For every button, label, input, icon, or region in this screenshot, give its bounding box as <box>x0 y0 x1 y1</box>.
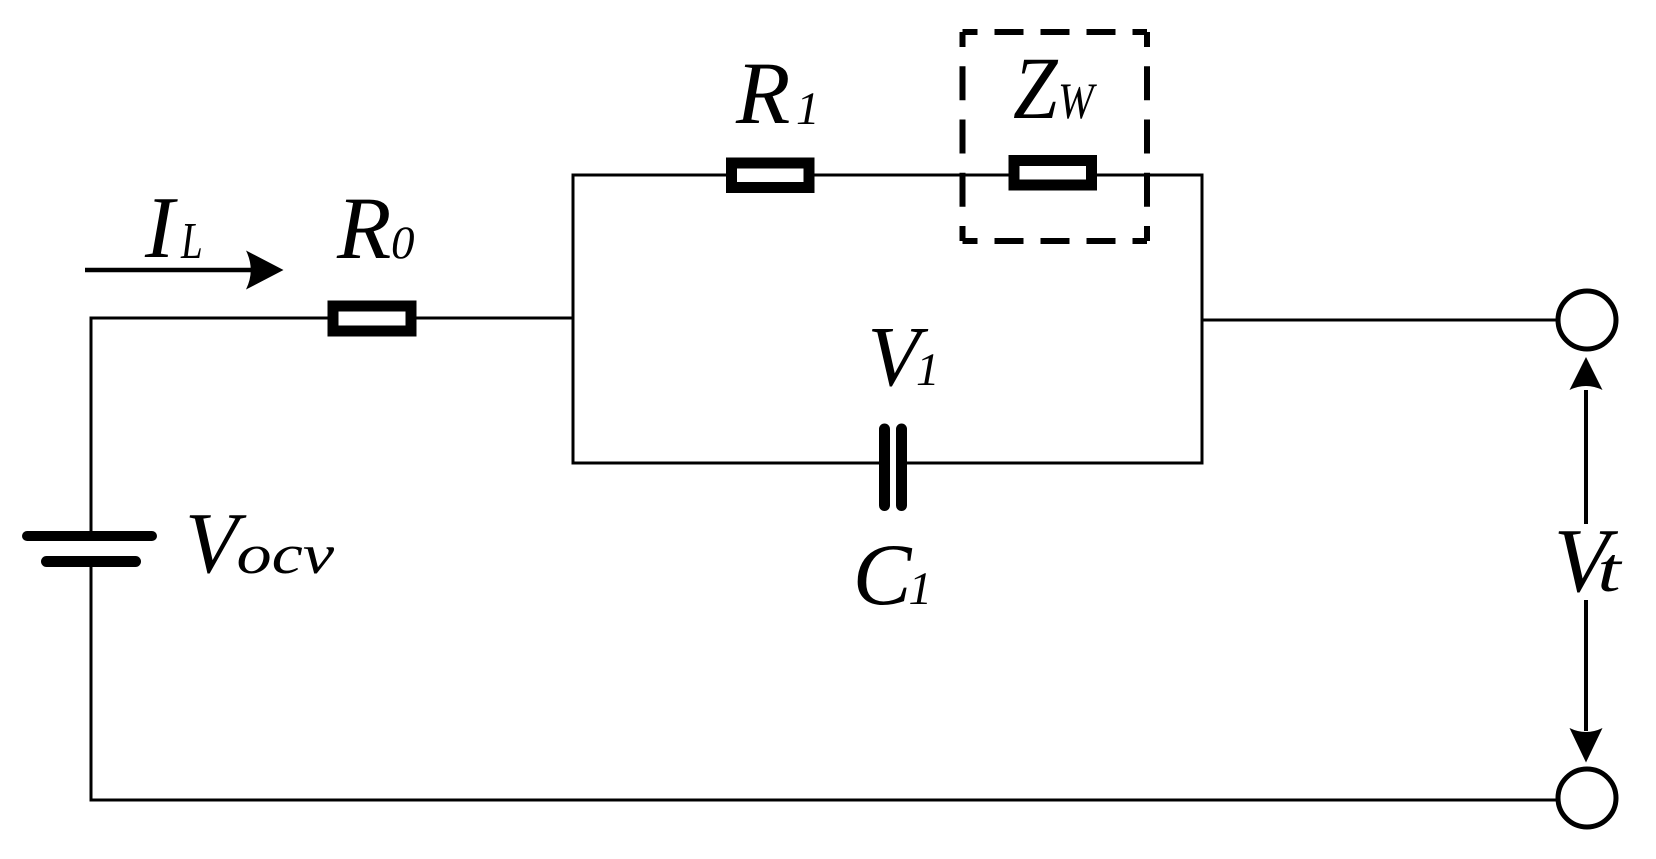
Vt arrow lower (pointing down at bottom terminal) <box>1584 600 1588 731</box>
battery Vocv short plate <box>47 556 136 567</box>
svg-text:Z: Z <box>1013 40 1058 138</box>
capacitor C1 right plate <box>896 429 907 506</box>
Vt arrow upper (pointing up at top terminal) <box>1584 390 1588 524</box>
dashed box around Zw <box>963 29 1148 35</box>
wire top-left horizontal from battery corner to RC block <box>91 317 573 320</box>
wire bottom branch right of capacitor <box>907 462 1204 465</box>
svg-text:C: C <box>853 527 913 624</box>
wire bottom rail <box>90 799 1560 802</box>
resistor R1 <box>732 163 810 188</box>
svg-text:L: L <box>180 212 203 270</box>
wire right vertical of RC block <box>1201 174 1204 465</box>
svg-text:I: I <box>144 180 178 277</box>
svg-text:t: t <box>1597 536 1623 606</box>
wire left vertical upper (corner to battery top plate) <box>90 317 93 532</box>
svg-text:R: R <box>336 180 391 278</box>
svg-text:W: W <box>1058 74 1097 130</box>
wire left vertical of RC block <box>572 174 575 464</box>
svg-text:1: 1 <box>909 563 933 615</box>
terminal top circle <box>1558 291 1616 349</box>
svg-text:R: R <box>735 45 790 143</box>
resistor R0 <box>333 306 411 331</box>
svg-text:0: 0 <box>391 217 415 269</box>
wire output to top terminal <box>1202 319 1559 322</box>
battery Vocv long plate <box>27 531 152 541</box>
svg-text:ocv: ocv <box>237 523 335 586</box>
wire top branch of RC block <box>573 174 1202 177</box>
IL current arrow <box>85 268 252 273</box>
wire left vertical lower (battery bottom plate to bottom rail) <box>90 567 93 801</box>
resistor Zw (Warburg element) <box>1014 161 1092 186</box>
capacitor C1 left plate <box>879 429 890 506</box>
wire bottom branch left of capacitor <box>572 462 880 465</box>
svg-text:1: 1 <box>796 83 820 135</box>
svg-text:1: 1 <box>916 344 940 396</box>
terminal bottom circle <box>1558 769 1616 827</box>
